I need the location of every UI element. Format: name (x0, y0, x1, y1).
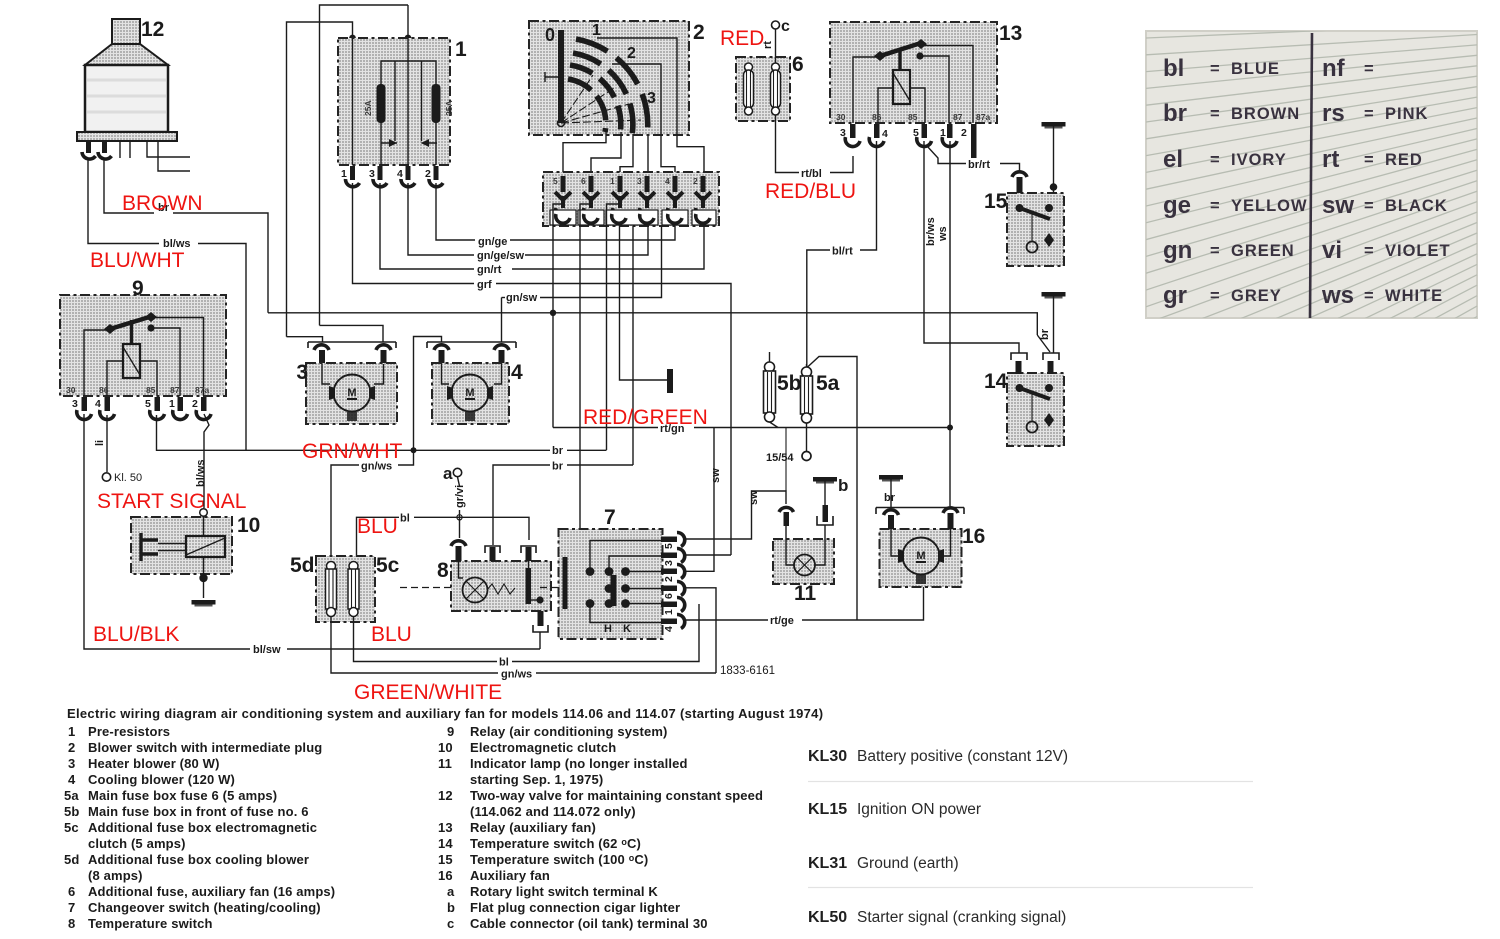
svg-text:87: 87 (170, 385, 180, 395)
svg-text:gr: gr (1163, 282, 1187, 309)
svg-text:Temperature switch (62 oC): Temperature switch (62 oC) (470, 836, 641, 851)
junction dot comp1 pin1 (349, 35, 356, 42)
plug contacts (555, 176, 711, 217)
clutch 10 internals (141, 517, 225, 574)
wire ground br to switch 14 (1053, 296, 1055, 353)
svg-text:30: 30 (66, 385, 76, 395)
svg-text:85: 85 (146, 385, 156, 395)
wire rt/bl fuse 6 to relay 13 pin3 (776, 115, 800, 173)
wire strip tail 1b to blocked terminal (620, 226, 668, 380)
svg-text:15: 15 (984, 190, 1008, 213)
svg-text:gr/vi: gr/vi (454, 485, 466, 508)
wire strip tail 1a br (607, 204, 621, 450)
svg-text:gn/ge: gn/ge (478, 236, 507, 248)
svg-text:Blower switch with intermediat: Blower switch with intermediate plug (88, 740, 322, 755)
long rail rt/gn KL15 (553, 427, 658, 429)
svg-text:KL30: KL30 (808, 748, 847, 765)
wire top rail KL30 to relay 13 (320, 5, 409, 325)
svg-text:1: 1 (68, 724, 75, 739)
svg-text:Indicator lamp (no longer inst: Indicator lamp (no longer installed (470, 756, 688, 771)
wire gr/vi from terminal a (458, 477, 460, 538)
svg-text:Main fuse box fuse 6 (5 amps): Main fuse box fuse 6 (5 amps) (88, 788, 277, 803)
wiper lines (561, 75, 641, 123)
svg-text:1: 1 (592, 22, 601, 39)
svg-text:10: 10 (237, 514, 260, 537)
lamp 11 internals (786, 539, 825, 576)
switch 8 pins (451, 541, 536, 561)
legend column 1 (64, 724, 335, 931)
long rail br KL31 (268, 313, 1037, 335)
svg-text:Electric wiring diagram air co: Electric wiring diagram air conditioning… (67, 706, 823, 721)
wire riser rt/ge to fuse 5a top (807, 357, 858, 621)
wire br from valve 12 (104, 158, 154, 213)
svg-text:Two-way valve for maintaining: Two-way valve for maintaining constant s… (470, 788, 763, 803)
switch 2 output drops (563, 130, 606, 172)
switch 8 internals (459, 561, 544, 604)
motor M blower 3 (329, 375, 375, 422)
svg-text:li: li (94, 440, 106, 446)
svg-text:9: 9 (132, 277, 144, 300)
label I marker (545, 72, 559, 82)
svg-text:rt/bl: rt/bl (801, 168, 822, 180)
svg-text:Additional fuse, auxiliary fan: Additional fuse, auxiliary fan (16 amps) (88, 884, 335, 899)
resistor R 25A left (377, 84, 386, 123)
wire ws relay 13 pin1 to fan 16 (949, 141, 951, 506)
svg-text:5a: 5a (64, 788, 79, 803)
svg-text:5a: 5a (816, 372, 840, 395)
svg-text:nf: nf (1322, 55, 1346, 82)
svg-text:1: 1 (169, 398, 175, 410)
svg-text:15: 15 (438, 852, 453, 867)
svg-text:bl/ws: bl/ws (195, 459, 207, 487)
ground KL31 br fan 16 (879, 475, 903, 482)
wire changeover 7 pin3 riser crossing (684, 554, 731, 556)
fuse 5c (348, 562, 359, 617)
svg-text:0: 0 (545, 25, 555, 45)
svg-text:=: = (1364, 287, 1375, 305)
pre-resistors 1 box (338, 38, 450, 165)
clutch 10 box (131, 517, 232, 574)
svg-text:10: 10 (438, 740, 453, 755)
changeover switch 7 box (559, 529, 663, 639)
switch 7 pins 5 3 2 6 1 4 (661, 532, 685, 628)
svg-text:Relay (air conditioning system: Relay (air conditioning system) (470, 724, 668, 739)
ground KL31 above 14 (1042, 292, 1066, 299)
svg-text:Temperature switch: Temperature switch (88, 916, 213, 931)
svg-text:c: c (447, 916, 454, 931)
svg-text:87a: 87a (976, 112, 990, 122)
svg-text:3: 3 (840, 127, 846, 139)
svg-text:1: 1 (341, 168, 347, 180)
svg-text:5: 5 (145, 398, 151, 410)
svg-text:ge: ge (1163, 192, 1191, 219)
wire comp1 pin1 top link (287, 22, 353, 337)
pin numbers switch 7 (663, 543, 675, 632)
blower 3 wiring (322, 364, 384, 384)
svg-text:5: 5 (553, 176, 558, 186)
svg-text:gn/sw: gn/sw (506, 292, 538, 304)
lamp 11 left pin (779, 507, 794, 539)
svg-text:br: br (884, 492, 896, 504)
svg-text:rt: rt (762, 41, 774, 49)
node circle above clutch (200, 509, 208, 517)
handwritten color legend photo (1146, 24, 1477, 508)
fan 16 bracket (876, 508, 964, 515)
svg-text:b: b (838, 476, 848, 495)
switch 7 internals (563, 541, 662, 623)
svg-text:=: = (1210, 60, 1221, 78)
svg-text:11: 11 (438, 756, 452, 771)
junction on br rail (550, 310, 556, 316)
main fuse 5b (764, 352, 779, 428)
svg-text:KL31: KL31 (808, 855, 847, 872)
svg-text:2: 2 (192, 398, 198, 410)
svg-text:gn/rt: gn/rt (477, 264, 502, 276)
svg-text:BROWN: BROWN (122, 192, 203, 215)
svg-text:=: = (1364, 60, 1375, 78)
svg-text:sw: sw (1322, 192, 1354, 219)
svg-text:3: 3 (637, 176, 642, 186)
svg-text:RED: RED (1385, 151, 1423, 169)
intermediate plug strip box (543, 172, 719, 226)
svg-text:KL50: KL50 (808, 909, 847, 926)
bracket blower 4 (427, 342, 516, 348)
svg-text:Temperature switch (100 oC): Temperature switch (100 oC) (470, 852, 648, 867)
svg-text:4: 4 (68, 772, 76, 787)
blower 4 pin cups (434, 345, 449, 350)
svg-text:br: br (552, 445, 564, 457)
wire 5d bottom to gn/ws low rail (331, 616, 498, 673)
svg-text:5d: 5d (290, 554, 315, 577)
relay 9 box (60, 295, 226, 396)
wire strip tail 6 (580, 204, 591, 528)
svg-text:5: 5 (913, 127, 919, 139)
svg-text:11: 11 (794, 582, 817, 605)
svg-text:a: a (443, 464, 453, 483)
svg-text:bl: bl (1163, 55, 1184, 82)
svg-text:3: 3 (369, 168, 375, 180)
svg-text:BROWN: BROWN (1231, 105, 1300, 123)
plug housings (550, 210, 716, 225)
svg-text:H: H (604, 623, 612, 635)
svg-text:VIOLET: VIOLET (1385, 242, 1451, 260)
wire comp1 pin4 riser (407, 5, 409, 38)
svg-text:2: 2 (693, 21, 705, 44)
junction dot comp1 pin4 (405, 35, 412, 42)
junction rt/gn to ws (949, 141, 951, 428)
svg-text:6: 6 (581, 176, 586, 186)
resistor 1 internals (353, 38, 438, 165)
svg-text:GREEN/WHITE: GREEN/WHITE (354, 681, 502, 704)
svg-text:bl/sw: bl/sw (253, 644, 281, 656)
bracket blower 3 (308, 342, 396, 348)
dial arcs (568, 39, 648, 136)
svg-text:RED: RED (720, 27, 764, 50)
svg-text:ws: ws (937, 226, 949, 242)
wire gn/sw (502, 297, 506, 299)
svg-text:3: 3 (72, 398, 78, 410)
svg-text:clutch (5 amps): clutch (5 amps) (88, 836, 186, 851)
wire bl 5c bottom to changeover 7 pin1 (354, 616, 498, 662)
svg-text:=: = (1364, 242, 1375, 260)
wire ground to switch 15 (1053, 126, 1055, 193)
svg-text:Pre-resistors: Pre-resistors (88, 724, 170, 739)
svg-text:c: c (781, 18, 790, 35)
plug pins 5 6 1 3 4 2 (553, 176, 698, 186)
svg-text:K: K (623, 623, 631, 635)
svg-text:YELLOW: YELLOW (1231, 197, 1308, 215)
fuse box 5d 5c (316, 556, 375, 622)
auxiliary fan 16 box (880, 529, 962, 587)
svg-text:START SIGNAL: START SIGNAL (97, 490, 246, 513)
svg-text:BLU/BLK: BLU/BLK (93, 623, 179, 646)
svg-text:5c: 5c (376, 554, 400, 577)
wire li to KL50 (106, 415, 108, 472)
wire gn/rt (380, 183, 474, 269)
wire bl/ws relay 9 pin2 to clutch 10 (204, 414, 209, 508)
svg-text:Kl. 50: Kl. 50 (114, 472, 142, 484)
svg-text:6: 6 (663, 593, 675, 599)
svg-text:bl/rt: bl/rt (832, 246, 853, 258)
relay 9 internals (84, 312, 204, 396)
cooling blower 4 (414, 337, 517, 451)
svg-text:2: 2 (663, 576, 675, 582)
svg-text:15/54: 15/54 (766, 452, 794, 464)
svg-text:3: 3 (663, 560, 675, 566)
svg-text:2: 2 (961, 127, 967, 139)
svg-text:Additional fuse box electromag: Additional fuse box electromagnetic (88, 820, 317, 835)
svg-text:7: 7 (604, 506, 616, 529)
svg-text:16: 16 (962, 525, 985, 548)
comp1 pins 1 3 4 2 (345, 166, 443, 187)
svg-text:Relay (auxiliary fan): Relay (auxiliary fan) (470, 820, 596, 835)
svg-text:87a: 87a (195, 385, 209, 395)
wire ground to fan pin (890, 479, 892, 508)
svg-text:gn/ws: gn/ws (361, 461, 392, 473)
wire strip tail 5 to node (553, 204, 563, 428)
wire gn/sw drop to blower 4 (501, 298, 503, 343)
svg-text:5b: 5b (64, 804, 79, 819)
wire br node relay9 pin5 (157, 415, 551, 450)
wire gn/ws to fuse 5d (398, 450, 414, 465)
svg-text:86: 86 (99, 385, 109, 395)
svg-text:rs: rs (1322, 100, 1345, 127)
wire 15/54 terminal (806, 428, 808, 452)
fan 16 pins (884, 508, 959, 529)
svg-text:WHITE: WHITE (1385, 287, 1443, 305)
svg-text:13: 13 (999, 22, 1022, 45)
svg-text:=: = (1210, 242, 1221, 260)
wire lamp 11 riser to rt/gn rail (785, 428, 787, 492)
fuse 6 left element (744, 63, 754, 115)
wire ground b stem (824, 481, 826, 505)
ground KL31 b (813, 477, 837, 484)
switch 14 pins (1011, 353, 1059, 374)
svg-text:=: = (1210, 151, 1221, 169)
svg-text:6: 6 (792, 53, 804, 76)
svg-text:25A: 25A (444, 100, 454, 116)
wire feed right pin blower 3 (320, 325, 384, 342)
svg-text:5: 5 (663, 543, 675, 549)
temperature switch 14 box (1007, 373, 1064, 446)
blocked terminal bar (667, 369, 673, 393)
svg-text:b: b (447, 900, 455, 915)
svg-text:2: 2 (693, 176, 698, 186)
svg-text:BLUE: BLUE (1231, 60, 1280, 78)
svg-text:rt/ge: rt/ge (770, 615, 794, 627)
svg-text:2: 2 (68, 740, 75, 755)
svg-text:BLU: BLU (371, 623, 412, 646)
wire into clutch (203, 516, 205, 536)
svg-text:BLU: BLU (357, 515, 398, 538)
svg-text:rt: rt (1322, 146, 1339, 173)
svg-text:5d: 5d (64, 852, 79, 867)
hop circle on bl wire (457, 515, 462, 520)
svg-text:br/ws: br/ws (925, 217, 937, 246)
svg-text:Heater blower (80 W): Heater blower (80 W) (88, 756, 220, 771)
svg-text:13: 13 (438, 820, 453, 835)
terminal a circle (453, 468, 461, 476)
svg-text:bl: bl (499, 657, 509, 669)
svg-text:Starter signal (cranking signa: Starter signal (cranking signal) (857, 909, 1066, 926)
svg-text:vi: vi (1322, 237, 1342, 264)
svg-text:3: 3 (296, 361, 308, 384)
svg-text:=: = (1210, 197, 1221, 215)
wire rt terminal c to fuse 6 (775, 29, 777, 63)
svg-text:KL15: KL15 (808, 801, 847, 818)
svg-text:4: 4 (397, 168, 403, 180)
svg-text:86: 86 (872, 112, 882, 122)
svg-text:gn/ws: gn/ws (501, 669, 532, 681)
wire feed left pin blower 4 (414, 337, 442, 451)
divider line (1310, 33, 1312, 318)
wire gn/ge (436, 183, 475, 240)
svg-text:3: 3 (68, 756, 75, 771)
svg-text:12: 12 (438, 788, 453, 803)
svg-text:bl: bl (400, 513, 410, 525)
svg-text:Ignition ON power: Ignition ON power (857, 801, 981, 818)
wire gr (353, 183, 475, 284)
svg-text:GREEN: GREEN (1231, 242, 1295, 260)
svg-text:=: = (1364, 151, 1375, 169)
svg-text:Ground (earth): Ground (earth) (857, 855, 959, 872)
svg-text:8: 8 (68, 916, 75, 931)
svg-text:PINK: PINK (1385, 105, 1428, 123)
svg-text:2: 2 (627, 45, 636, 62)
svg-text:RED/BLU: RED/BLU (765, 180, 856, 203)
fuse 6 right element (771, 63, 781, 115)
svg-text:16: 16 (438, 868, 453, 883)
svg-text:br: br (1039, 328, 1051, 340)
main fuse 5a (801, 364, 813, 428)
wire br comp8 mid pin to strip (493, 465, 550, 545)
wire gn/ge/sw (408, 183, 474, 255)
svg-text:30: 30 (836, 112, 846, 122)
svg-text:1: 1 (610, 176, 615, 186)
svg-text:GREY: GREY (1231, 287, 1282, 305)
mechanical link dashes (400, 587, 564, 589)
wire br/ws relay 13 pin5 to temp switch 14 (924, 141, 1019, 353)
wire rt/ge changeover 7 pin4 (684, 619, 768, 621)
svg-text:25A: 25A (363, 100, 373, 116)
svg-text:4: 4 (665, 176, 670, 186)
svg-text:1: 1 (940, 127, 946, 139)
two-way valve 12 body (77, 19, 177, 141)
fan 16 wiring (891, 529, 951, 556)
svg-text:5b: 5b (777, 372, 802, 395)
svg-text:8: 8 (437, 559, 449, 582)
svg-text:4: 4 (511, 361, 523, 384)
svg-text:RED/GREEN: RED/GREEN (583, 406, 708, 429)
svg-text:1: 1 (663, 609, 675, 615)
junction dot under clutch (199, 574, 207, 582)
svg-text:ws: ws (1321, 282, 1354, 309)
resistor R 25A right (432, 84, 441, 123)
svg-text:gn/ge/sw: gn/ge/sw (477, 250, 525, 262)
svg-text:(8 amps): (8 amps) (88, 868, 143, 883)
switch 15 left pin (1012, 172, 1027, 193)
svg-text:4: 4 (882, 128, 888, 140)
temperature switch 15 box (1007, 193, 1064, 266)
svg-text:br: br (1163, 100, 1187, 127)
blower 3 box (306, 363, 397, 424)
svg-text:Battery positive (constant 12V: Battery positive (constant 12V) (857, 748, 1068, 765)
svg-text:7: 7 (68, 900, 75, 915)
svg-text:5c: 5c (64, 820, 79, 835)
heater blower 3 (287, 325, 397, 364)
svg-text:br: br (552, 461, 564, 473)
switch 2 internal top links (597, 38, 704, 172)
svg-text:87: 87 (953, 112, 963, 122)
svg-text:Cable connector (oil tank) ter: Cable connector (oil tank) terminal 30 (470, 916, 708, 931)
switch 2 zero bar (558, 30, 564, 123)
svg-text:4: 4 (663, 626, 675, 632)
switch 15 internals (1016, 204, 1055, 253)
svg-text:grf: grf (477, 279, 492, 291)
relay 9 pins 3 4 5 1 2 (77, 397, 211, 420)
svg-text:a: a (447, 884, 455, 899)
ground KL31 under clutch (192, 600, 216, 607)
wire sw changeover 7 pin2 to rt/gn rail (684, 428, 714, 572)
svg-text:Cooling blower (120 W): Cooling blower (120 W) (88, 772, 235, 787)
relay 9 terminal labels 30 86 85 87 87a (66, 385, 209, 395)
valve 12 pin stems (82, 141, 130, 159)
relay 13 internals (853, 39, 973, 123)
svg-text:Rotary light switch terminal K: Rotary light switch terminal K (470, 884, 658, 899)
switch 14 internals (1016, 384, 1055, 433)
svg-text:1833-6161: 1833-6161 (720, 665, 775, 677)
wire bl/sw relay 9 pin3 (84, 414, 250, 649)
wire long rail into switch 14 (1037, 335, 1050, 352)
svg-text:3: 3 (647, 90, 656, 107)
svg-text:starting Sep. 1, 1975): starting Sep. 1, 1975) (470, 772, 603, 787)
svg-text:4: 4 (95, 398, 101, 410)
svg-text:85: 85 (908, 112, 918, 122)
svg-text:Main fuse box in front of fuse: Main fuse box in front of fuse no. 6 (88, 804, 309, 819)
switch 2 pivot (558, 120, 565, 127)
svg-text:6: 6 (68, 884, 75, 899)
ground KL31 above 15 (1042, 122, 1066, 129)
KL terminal table (808, 748, 1253, 926)
blower 3 pin cups (314, 345, 329, 350)
svg-text:9: 9 (447, 724, 454, 739)
svg-text:Changeover switch (heating/coo: Changeover switch (heating/cooling) (88, 900, 321, 915)
svg-text:(114.062 and 114.072 only): (114.062 and 114.072 only) (470, 804, 636, 819)
svg-text:=: = (1364, 105, 1375, 123)
svg-text:=: = (1210, 287, 1221, 305)
svg-text:br/rt: br/rt (968, 159, 990, 171)
wire changeover 7 pin5 to indicator lamp 11 (684, 491, 786, 539)
